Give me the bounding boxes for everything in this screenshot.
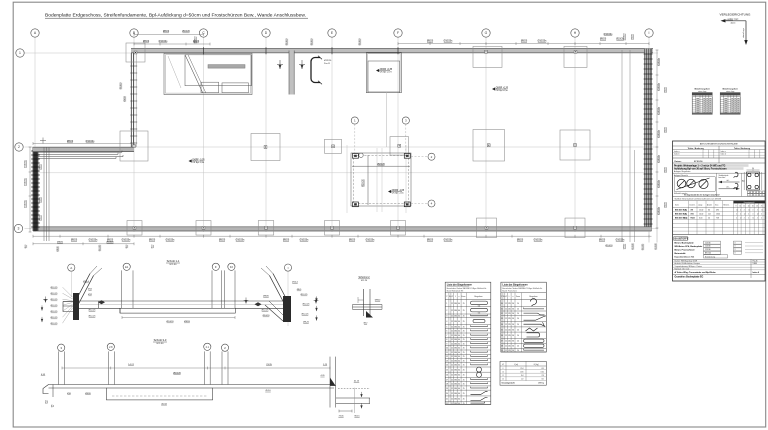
svg-text:3: 3: [18, 227, 20, 231]
svg-text:36: 36: [512, 346, 514, 348]
svg-text:OKRF -0,35: OKRF -0,35: [496, 87, 509, 89]
svg-text:1254: 1254: [520, 368, 524, 370]
svg-text:584: 584: [454, 352, 457, 354]
svg-text:36: 36: [512, 309, 514, 311]
svg-text:64: 64: [458, 316, 460, 318]
svg-text:n: n: [513, 296, 514, 298]
detail bubble 1: [351, 117, 358, 124]
svg-text:12: 12: [753, 218, 755, 220]
svg-text:20: 20: [517, 324, 519, 326]
svg-text:C25/30: C25/30: [705, 246, 711, 248]
svg-text:64: 64: [458, 375, 460, 377]
detail position bubble small: [359, 153, 363, 157]
svg-text:8: 8: [446, 339, 447, 341]
svg-text:64: 64: [458, 352, 460, 354]
svg-text:Anlagen-Übersicht: Anlagen-Übersicht: [674, 174, 688, 177]
svg-text:WU-Beton XC4, Bodenplatte: WU-Beton XC4, Bodenplatte: [675, 245, 704, 248]
project bold lines: [674, 164, 749, 167]
svg-text:25: 25: [463, 369, 465, 371]
svg-text:R524: R524: [691, 217, 695, 220]
section1 right level ticks: [315, 296, 317, 301]
svg-text:12: 12: [451, 384, 453, 386]
svg-text:36: 36: [512, 313, 514, 315]
level arrow b: [299, 60, 305, 69]
svg-text:Länge: Länge: [698, 205, 702, 207]
svg-text:Grundriss Bodenplatte EG: Grundriss Bodenplatte EG: [675, 276, 704, 279]
svg-text:2: 2: [18, 145, 20, 149]
detail bubble 2: [428, 153, 435, 160]
svg-text:64: 64: [458, 356, 460, 358]
grid bubble B: [130, 29, 138, 37]
svg-text:12: 12: [451, 335, 453, 337]
svg-text:Ø8: Ø8: [749, 192, 751, 194]
svg-text:1: 1: [19, 51, 21, 55]
svg-text:6.00: 6.00: [699, 218, 702, 220]
footing E2: [325, 139, 342, 153]
grid bubble C: [199, 29, 207, 37]
svg-text:16: 16: [752, 205, 754, 207]
svg-text:12: 12: [761, 209, 763, 211]
svg-text:12: 12: [451, 310, 453, 312]
grid line G: [485, 37, 487, 232]
svg-text:1344: 1344: [540, 371, 544, 373]
section3 bubbles: [58, 344, 65, 351]
svg-text:A: A: [70, 266, 72, 270]
svg-text:Schnitt 1-1: Schnitt 1-1: [167, 259, 180, 263]
svg-text:Ø8: Ø8: [755, 192, 757, 194]
section3 thickened middle: [106, 388, 212, 400]
svg-text:12: 12: [748, 209, 750, 211]
svg-text:125: 125: [508, 335, 511, 337]
svg-text:20: 20: [756, 205, 758, 207]
svg-text:36: 36: [512, 324, 514, 326]
svg-text:64: 64: [458, 348, 460, 350]
svg-text:125: 125: [508, 341, 511, 343]
svg-text:12: 12: [451, 343, 453, 345]
grid line C: [203, 37, 205, 232]
level marker detail: [388, 190, 405, 195]
svg-text:Gesamtgewicht: Gesamtgewicht: [502, 382, 516, 385]
section3 right level ticks: [360, 392, 362, 397]
svg-text:Pos.11: Pos.11: [324, 63, 331, 65]
svg-text:16: 16: [446, 375, 448, 377]
svg-text:Index A: Index A: [753, 271, 760, 274]
section1 slab thickened middle: [120, 308, 235, 313]
level marker mid-left: [189, 159, 206, 164]
svg-text:584: 584: [454, 375, 457, 377]
svg-text:584: 584: [454, 348, 457, 350]
svg-text:10: 10: [446, 348, 448, 350]
svg-text:Ø8: Ø8: [691, 209, 693, 211]
svg-text:31: 31: [501, 309, 503, 311]
interior room 2 inner: [368, 61, 400, 93]
bar list mini table A: [692, 88, 712, 115]
svg-text:Aufdickung Bpl von 30 auf 50cm: Aufdickung Bpl von 30 auf 50cm, Frostsch…: [674, 168, 727, 171]
footing H1: [564, 46, 587, 67]
U-bar rebar detail: [311, 58, 320, 83]
svg-text:64: 64: [458, 310, 460, 312]
svg-text:12: 12: [451, 403, 453, 405]
svg-text:25: 25: [463, 310, 465, 312]
svg-text:584: 584: [454, 343, 457, 345]
svg-text:OKRF -0,35: OKRF -0,35: [192, 159, 205, 161]
svg-text:25: 25: [463, 343, 465, 345]
svg-text:5: 5: [446, 326, 447, 328]
svg-text:13: 13: [446, 360, 448, 362]
svg-text:OK Bpl -0,38: OK Bpl -0,38: [496, 90, 509, 92]
small value boxes: [748, 191, 753, 193]
svg-text:20: 20: [446, 393, 448, 395]
footing G2: [473, 130, 505, 162]
svg-text:584: 584: [454, 399, 457, 401]
detail bubble 4: [428, 200, 435, 207]
section3 columns: [58, 351, 60, 384]
footing G1: [473, 46, 502, 67]
interior room small pit 1: [201, 82, 219, 93]
svg-text:Biegeform: Biegeform: [529, 296, 538, 298]
svg-text:854: 854: [521, 375, 524, 377]
intermediate horizontal line: [38, 172, 644, 174]
svg-text:584: 584: [454, 369, 457, 371]
svg-text:25: 25: [463, 356, 465, 358]
svg-text:C25/30: C25/30: [705, 242, 711, 244]
svg-text:30: 30: [501, 303, 503, 305]
svg-text:36: 36: [512, 350, 514, 352]
svg-text:20: 20: [517, 309, 519, 311]
room 2 drop line: [385, 93, 387, 147]
svg-text:36: 36: [512, 318, 514, 320]
svg-text:34: 34: [501, 324, 503, 326]
svg-text:Ø8: Ø8: [761, 192, 763, 194]
section1 bubble B1: [123, 263, 130, 270]
svg-text:Index d:: Index d:: [721, 154, 727, 156]
svg-text:25: 25: [463, 339, 465, 341]
footing B1: [126, 43, 145, 62]
svg-text:Anlagen: Biegelisten: Anlagen: Biegelisten: [674, 170, 690, 173]
svg-text:584: 584: [454, 321, 457, 323]
svg-text:19: 19: [446, 388, 448, 390]
svg-text:3: 3: [446, 316, 447, 318]
svg-text:64: 64: [458, 335, 460, 337]
svg-text:Projekt: Wohnanlage 1 + 2 mit: Projekt: Wohnanlage 1 + 2 mit je 24 WE u…: [674, 165, 726, 168]
svg-text:Bewehrungsliste: Bewehrungsliste: [695, 88, 710, 91]
right side dimension chain: [656, 50, 658, 228]
svg-text:112: 112: [708, 214, 711, 216]
svg-text:BSt 500 S(A): BSt 500 S(A): [675, 208, 687, 211]
svg-text:64: 64: [458, 303, 460, 305]
section1 break mark: [98, 300, 105, 304]
svg-text:12: 12: [451, 365, 453, 367]
svg-text:Form: Form: [462, 295, 467, 298]
svg-text:12: 12: [451, 348, 453, 350]
svg-text:64: 64: [708, 209, 710, 211]
svg-text:36: 36: [512, 341, 514, 343]
svg-text:122: 122: [521, 379, 524, 381]
grid bubble F: [394, 29, 402, 37]
interior room hatch: [168, 56, 181, 88]
section1 right node: [255, 266, 292, 322]
level arrow a: [277, 60, 283, 69]
svg-text:37: 37: [501, 341, 503, 343]
grid bubble D: [262, 29, 270, 37]
rebar lines row2 slab: [38, 151, 122, 153]
svg-text:12: 12: [505, 335, 507, 337]
svg-text:584: 584: [454, 303, 457, 305]
footing F3: [391, 221, 406, 236]
svg-text:21: 21: [446, 399, 448, 401]
svg-text:obere: obere: [731, 22, 736, 25]
extra level ticks left: [41, 305, 43, 310]
svg-text:584: 584: [478, 313, 481, 315]
svg-text:25: 25: [463, 326, 465, 328]
svg-text:Index c:: Index c:: [721, 151, 727, 153]
svg-text:15: 15: [446, 369, 448, 371]
svg-text:758: 758: [541, 375, 544, 377]
svg-text:36: 36: [512, 303, 514, 305]
top B-C secondary dim line: [134, 34, 204, 36]
svg-text:Expositionsklasse XC2: Expositionsklasse XC2: [675, 256, 695, 259]
svg-text:125: 125: [508, 346, 511, 348]
svg-text:25: 25: [463, 393, 465, 395]
svg-text:I: I: [649, 31, 650, 35]
svg-text:G: G: [485, 31, 488, 35]
svg-text:64: 64: [458, 339, 460, 341]
rebar schedule table 1: [445, 282, 491, 405]
svg-text:F: F: [215, 265, 217, 269]
grid bubble I: [645, 29, 653, 37]
footing C3: [196, 221, 211, 236]
svg-text:64: 64: [458, 393, 460, 395]
footing G3: [477, 218, 497, 238]
section3 top dim line: [62, 367, 330, 369]
detail corner rebar marks: [353, 154, 359, 159]
svg-text:14: 14: [748, 205, 750, 207]
svg-text:64: 64: [458, 403, 460, 405]
svg-text:64: 64: [458, 331, 460, 333]
svg-text:12: 12: [743, 205, 745, 207]
rebar lines right wall vertical: [621, 50, 623, 242]
detail inner verticals: [346, 145, 348, 213]
svg-text:64: 64: [458, 360, 460, 362]
svg-text:12: 12: [446, 356, 448, 358]
svg-text:C25/30: C25/30: [705, 249, 711, 251]
svg-text:758: 758: [716, 218, 719, 220]
svg-text:obere Lage: obere Lage: [742, 28, 745, 38]
section1 bottom dim: [122, 317, 235, 319]
svg-text:L: L: [509, 296, 510, 298]
svg-text:10: 10: [502, 371, 504, 373]
wall right (grid I): [645, 49, 652, 231]
grid bubble G: [482, 29, 490, 37]
section3 right column: [329, 357, 331, 408]
svg-text:125: 125: [508, 303, 511, 305]
svg-text:8: 8: [503, 368, 504, 370]
interior room 2 outline: [366, 52, 401, 92]
svg-text:25: 25: [463, 388, 465, 390]
svg-text:25: 25: [463, 331, 465, 333]
svg-text:584: 584: [454, 331, 457, 333]
footing H2: [560, 130, 590, 160]
svg-text:Biegeform: Biegeform: [474, 296, 483, 298]
svg-text:64: 64: [458, 365, 460, 367]
svg-text:Bodenplatte Erdgeschoss, Strei: Bodenplatte Erdgeschoss, Streifenfundame…: [45, 13, 306, 19]
svg-text:12: 12: [736, 209, 738, 211]
svg-text:64: 64: [458, 384, 460, 386]
svg-text:36: 36: [512, 335, 514, 337]
svg-text:25: 25: [463, 360, 465, 362]
svg-text:12: 12: [451, 321, 453, 323]
svg-text:12: 12: [451, 399, 453, 401]
svg-text:20: 20: [517, 350, 519, 352]
footing B2: [120, 131, 148, 161]
grid line row 1: [25, 52, 659, 54]
verlegerichtung vertical arrow: [745, 21, 747, 42]
svg-text:12: 12: [757, 214, 759, 216]
section1 level ticks: [43, 297, 48, 303]
footing F2: [390, 137, 409, 156]
svg-text:22: 22: [446, 403, 448, 405]
svg-text:25: 25: [761, 205, 763, 207]
svg-text:17: 17: [446, 379, 448, 381]
svg-text:20: 20: [761, 195, 763, 197]
grid line E: [331, 37, 333, 232]
top dimension chain: [134, 43, 210, 45]
rebar lines left wall vertical: [43, 147, 45, 241]
svg-text:12: 12: [505, 324, 507, 326]
svg-text:64: 64: [458, 399, 460, 401]
svg-text:T-102: T-102: [753, 263, 757, 265]
svg-text:OK Bpl -0,38: OK Bpl -0,38: [192, 162, 205, 164]
svg-text:2898 kg: 2898 kg: [538, 383, 544, 385]
svg-text:2180: 2180: [520, 371, 524, 373]
svg-text:12: 12: [451, 388, 453, 390]
grid bubble 2: [15, 143, 23, 151]
svg-text:12: 12: [505, 318, 507, 320]
svg-text:12: 12: [451, 379, 453, 381]
svg-text:G [kg]: G [kg]: [534, 364, 539, 366]
svg-text:12: 12: [451, 393, 453, 395]
svg-text:125: 125: [508, 350, 511, 352]
svg-text:Ø12/20: Ø12/20: [324, 60, 332, 62]
svg-text:12: 12: [451, 316, 453, 318]
section1 column F2: [224, 270, 226, 308]
svg-text:L: L: [455, 296, 456, 298]
section1 bubble F2: [228, 263, 235, 270]
section1 slab: [79, 300, 290, 302]
svg-text:üb.L.: üb.L.: [726, 180, 730, 182]
detail dim lines: [352, 165, 410, 167]
svg-text:64: 64: [458, 369, 460, 371]
svg-text:33: 33: [501, 318, 503, 320]
grid bubble H: [571, 29, 579, 37]
svg-text:25: 25: [463, 348, 465, 350]
svg-text:12: 12: [505, 329, 507, 331]
svg-text:M 1:50: M 1:50: [170, 264, 177, 266]
svg-text:12: 12: [505, 350, 507, 352]
interior room block outline: [164, 53, 252, 94]
stamp area dividers: [716, 173, 718, 196]
wall left lower (grid A side): [33, 147, 38, 231]
svg-text:12: 12: [502, 375, 504, 377]
level marker mid-right: [492, 87, 509, 92]
bottom-left secondary dim row: [33, 243, 134, 245]
svg-text:20: 20: [517, 335, 519, 337]
grid line A: [34, 37, 36, 232]
svg-text:36: 36: [512, 329, 514, 331]
interior room diagonal wall: [185, 55, 203, 93]
wall top (row 1): [131, 49, 653, 53]
svg-text:584: 584: [454, 316, 457, 318]
svg-text:125: 125: [508, 318, 511, 320]
svg-text:E1: E1: [125, 265, 129, 269]
detail bubble 3: [402, 117, 409, 124]
svg-text:584: 584: [454, 388, 457, 390]
svg-text:125: 125: [508, 324, 511, 326]
svg-text:12: 12: [451, 331, 453, 333]
svg-text:1344: 1344: [716, 214, 720, 216]
svg-text:14.00: 14.00: [699, 214, 703, 216]
svg-text:25: 25: [463, 403, 465, 405]
svg-text:584: 584: [454, 384, 457, 386]
grid bubble A: [31, 29, 39, 37]
svg-text:25: 25: [463, 335, 465, 337]
grid bubble 1: [16, 49, 24, 57]
svg-text:9: 9: [446, 343, 447, 345]
svg-text:Stahlliste: Betonstabstahl und: Stahlliste: Betonstabstahl und Betonstah…: [675, 198, 722, 201]
section1 column F: [211, 270, 213, 308]
grid bubble E: [328, 29, 336, 37]
svg-text:4: 4: [446, 321, 447, 323]
svg-text:Datum:: Datum:: [675, 160, 682, 163]
svg-text:584: 584: [478, 305, 481, 307]
svg-text:25: 25: [463, 303, 465, 305]
svg-text:36: 36: [501, 335, 503, 337]
svg-text:495: 495: [541, 368, 544, 370]
bottom dimension chain: [33, 235, 652, 237]
svg-text:AMTLICHE ABSTECKUNGSUNTERLAGE: AMTLICHE ABSTECKUNGSUNTERLAGE: [700, 143, 739, 146]
footing D2: [251, 134, 280, 161]
svg-text:584: 584: [454, 339, 457, 341]
svg-text:Beton: Bodenplatte: Beton: Bodenplatte: [675, 242, 695, 245]
svg-text:Verlegeabstände der Zulagen be: Verlegeabstände der Zulagen beachten!: [684, 193, 720, 196]
svg-text:125: 125: [508, 329, 511, 331]
footing E3: [325, 221, 340, 236]
footing H3: [565, 218, 585, 238]
svg-text:n: n: [459, 296, 460, 298]
svg-text:Bewehrungsliste: Bewehrungsliste: [723, 88, 738, 91]
svg-text:UK Bpl -0,73: UK Bpl -0,73: [380, 72, 393, 74]
svg-text:12: 12: [505, 346, 507, 348]
svg-text:20: 20: [517, 329, 519, 331]
svg-text:25: 25: [463, 316, 465, 318]
svg-text:584: 584: [454, 356, 457, 358]
svg-text:64: 64: [458, 379, 460, 381]
svg-text:6: 6: [446, 331, 447, 333]
svg-text:Index a:: Index a:: [674, 151, 680, 153]
svg-text:584: 584: [454, 335, 457, 337]
section1 bubble A: [68, 264, 75, 271]
svg-text:18: 18: [446, 384, 448, 386]
svg-text:20: 20: [517, 341, 519, 343]
svg-text:L [m]: L [m]: [514, 364, 518, 366]
svg-text:20: 20: [517, 346, 519, 348]
svg-text:25: 25: [463, 399, 465, 401]
svg-text:1: 1: [446, 303, 447, 305]
interior wall C-D: [289, 51, 294, 95]
svg-text:12: 12: [451, 360, 453, 362]
svg-text:12: 12: [451, 339, 453, 341]
svg-text:20: 20: [749, 195, 751, 197]
